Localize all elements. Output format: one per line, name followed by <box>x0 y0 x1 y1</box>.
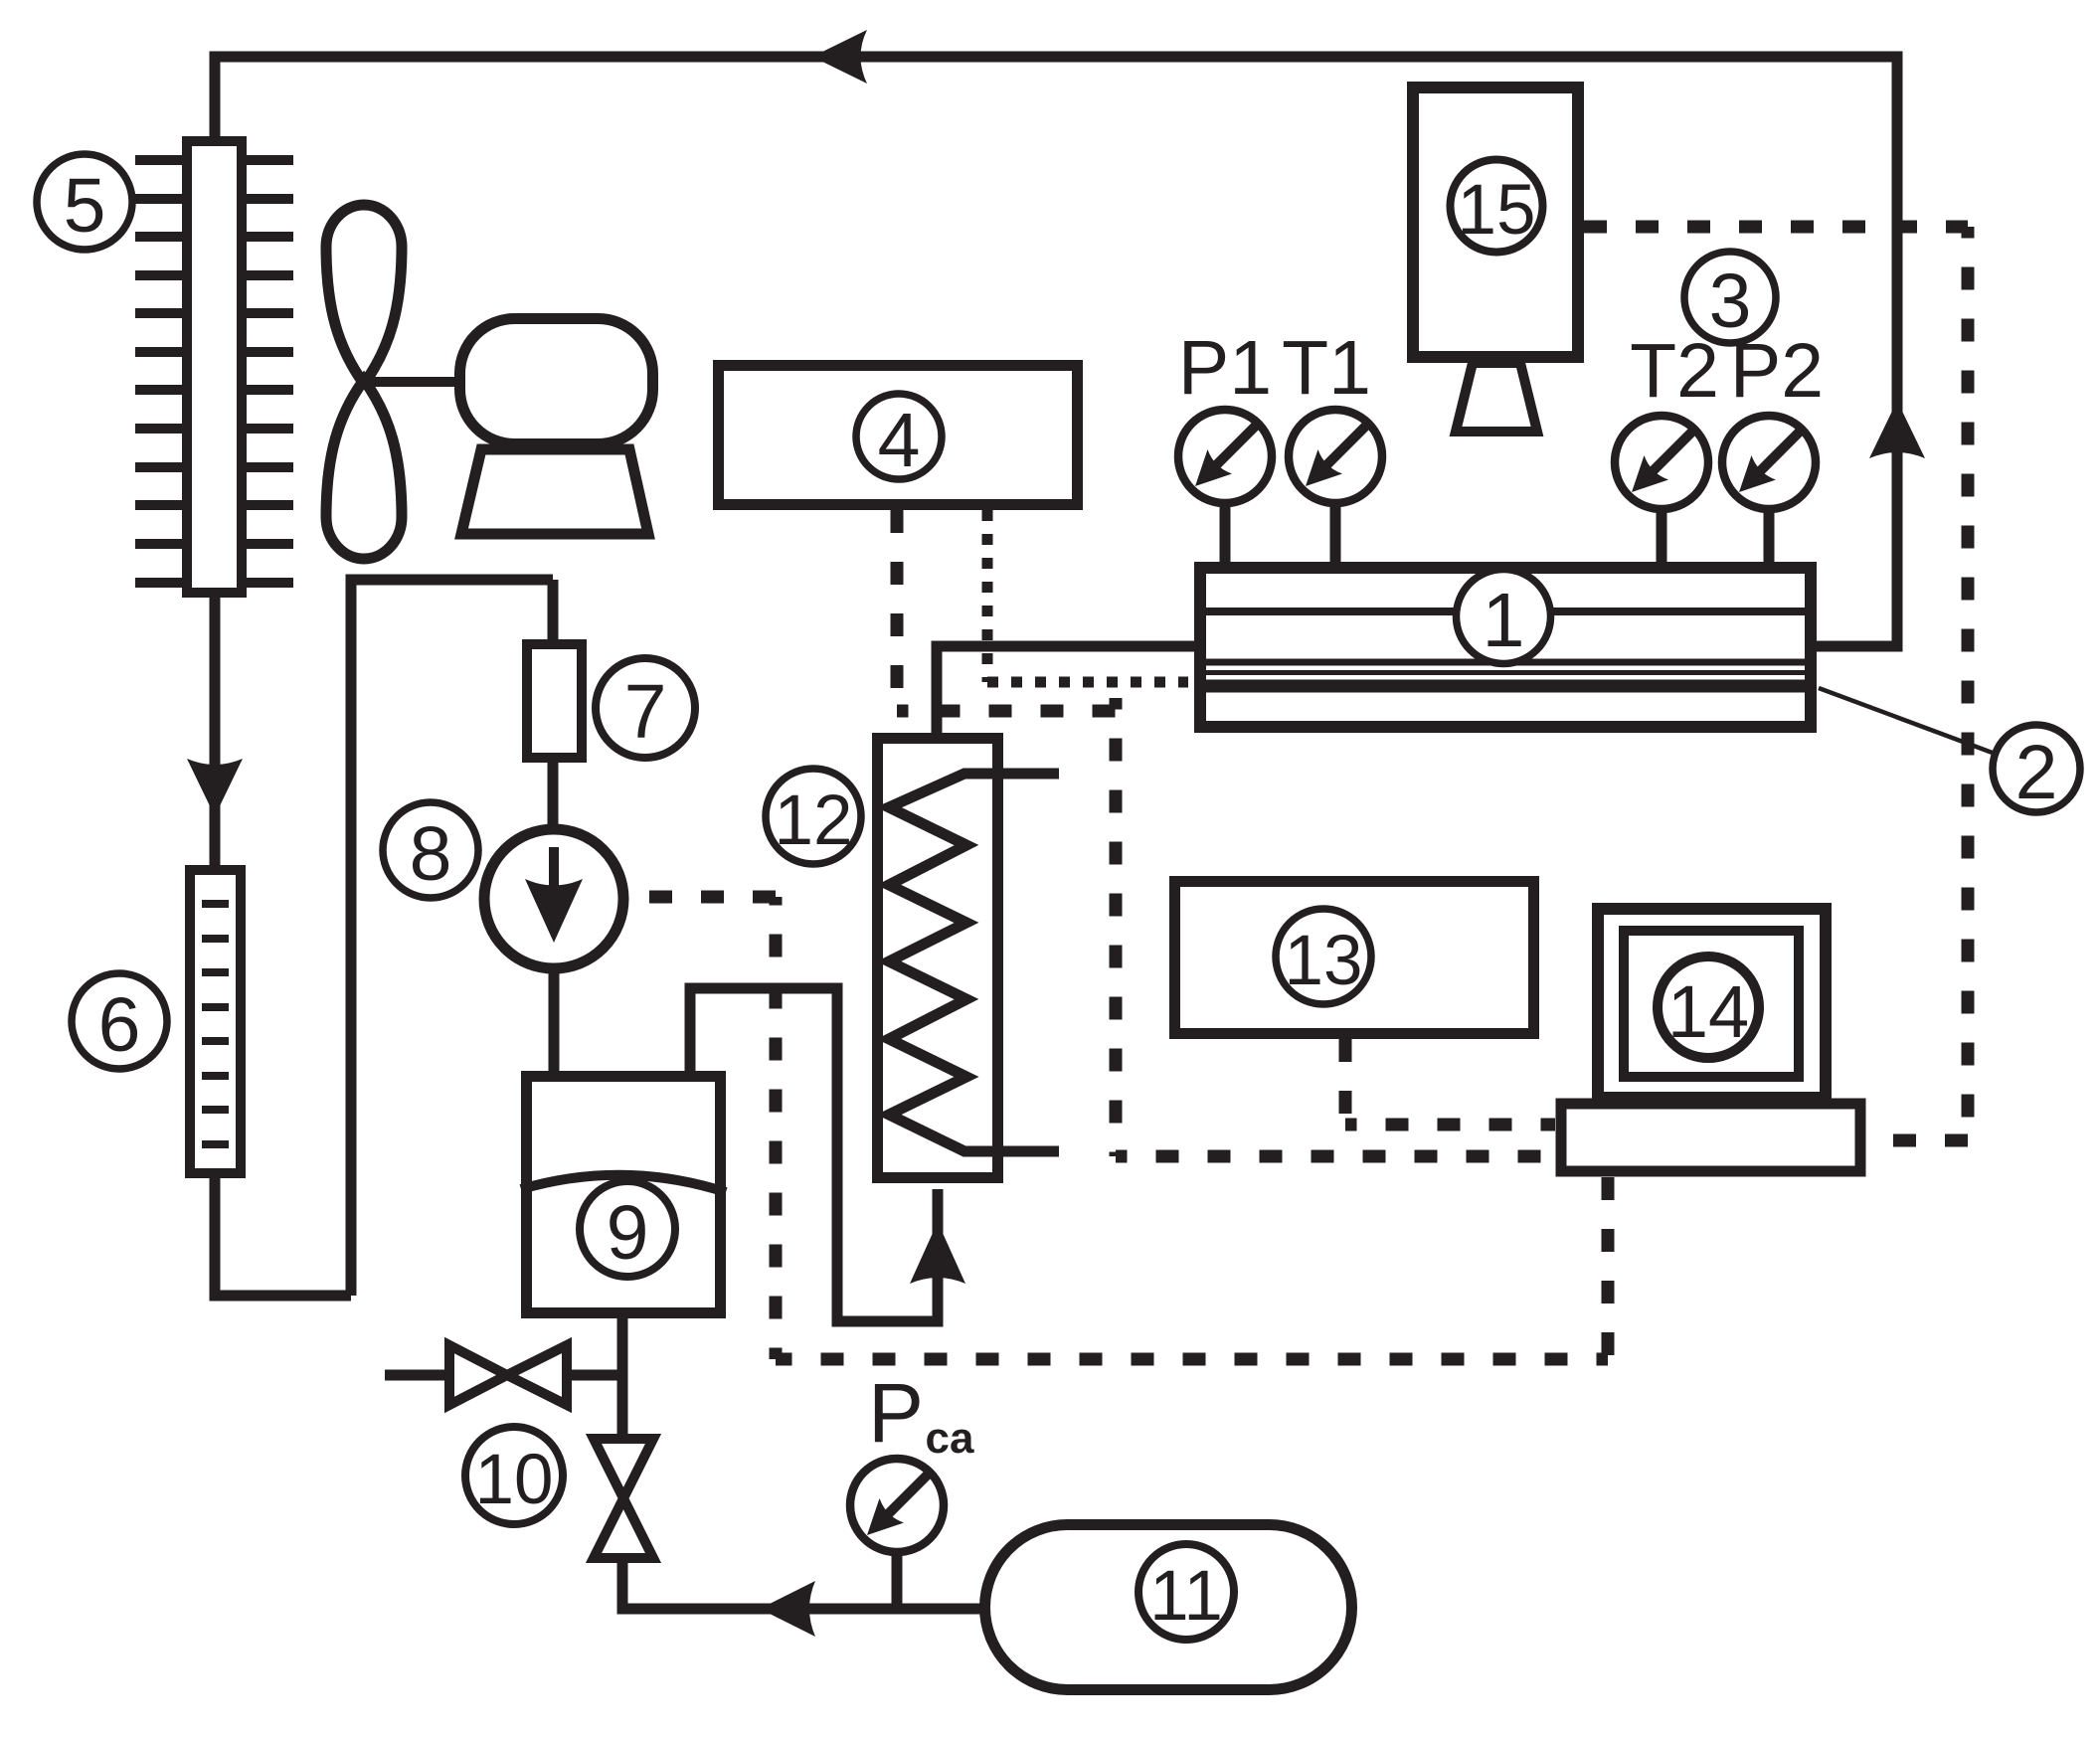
svg-text:P: P <box>868 1366 924 1460</box>
svg-text:ca: ca <box>926 1414 974 1463</box>
svg-text:T2: T2 <box>1630 328 1719 414</box>
svg-text:T1: T1 <box>1282 325 1371 411</box>
svg-text:10: 10 <box>475 1441 554 1519</box>
svg-text:8: 8 <box>410 811 452 897</box>
svg-text:6: 6 <box>98 982 141 1068</box>
svg-text:11: 11 <box>1149 1557 1223 1636</box>
svg-text:13: 13 <box>1285 922 1363 1000</box>
svg-text:14: 14 <box>1667 970 1749 1053</box>
svg-text:P2: P2 <box>1730 328 1824 414</box>
svg-text:1: 1 <box>1483 578 1525 663</box>
svg-text:5: 5 <box>64 163 106 249</box>
svg-text:7: 7 <box>624 669 667 755</box>
svg-text:15: 15 <box>1458 171 1536 250</box>
svg-text:12: 12 <box>775 782 853 860</box>
svg-text:9: 9 <box>607 1190 649 1276</box>
svg-text:2: 2 <box>2015 730 2058 815</box>
svg-text:P1: P1 <box>1178 325 1272 411</box>
svg-text:4: 4 <box>878 398 921 483</box>
